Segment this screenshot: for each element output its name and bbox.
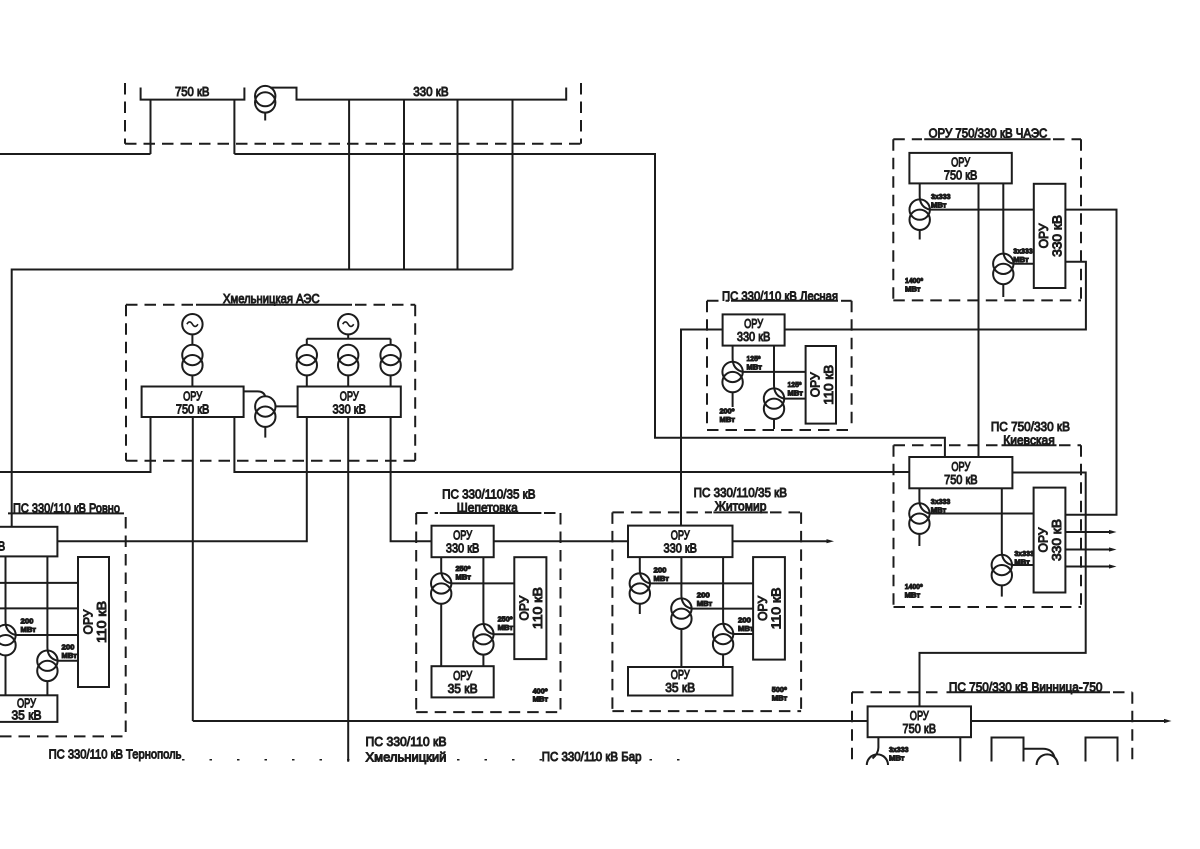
wire 750 kV link toward Kievskaya top feed [234, 154, 945, 457]
busbar 750 kV [141, 88, 245, 100]
svg-text:330 кВ: 330 кВ [413, 84, 448, 99]
transformer 3x333 (Vinnitsa, cut) [873, 737, 879, 758]
svg-text:110 кВ: 110 кВ [530, 587, 545, 629]
arrow 330 kV out 3 (Kievskaya) [1065, 566, 1109, 568]
wire ChAES ORU750 to Kievskaya [978, 183, 980, 457]
svg-text:МВт: МВт [697, 599, 713, 608]
arrow 750 kV line east out of Vinnitsa [971, 720, 1165, 722]
ORU 330 kV box (ChAES) [1034, 184, 1066, 288]
svg-text:330 кВ: 330 кВ [0, 539, 5, 554]
ORU 35 kV box (Zhitomir) [628, 667, 733, 696]
svg-text:МВт: МВт [21, 625, 37, 634]
transformer T2 (Zhitomir) [681, 557, 691, 609]
transformer T3 (Zhitomir) [723, 557, 733, 634]
wire ORU750 output middle (to Vinnitsa 750 line) [192, 417, 194, 721]
ORU 330 kV box (Kievskaya) [1034, 488, 1066, 593]
svg-text:МВт: МВт [905, 591, 921, 600]
svg-text:МВт: МВт [456, 572, 472, 581]
ORU 330 kV box (Khmelnitskaya) [298, 387, 401, 418]
svg-text:750 кВ: 750 кВ [944, 472, 978, 487]
svg-text:МВт: МВт [498, 623, 514, 632]
transformer T2 (Lesnaya) [774, 346, 784, 399]
svg-text:110 кВ: 110 кВ [821, 365, 836, 405]
generator manifold wire [307, 338, 391, 340]
svg-text:330 кВ: 330 кВ [1049, 519, 1064, 561]
wire ChAES 330 to Kievskaya 330 (east) [1065, 210, 1116, 515]
wire 330 kV manifold to Rovno [12, 270, 513, 527]
unit transformer T2c [380, 345, 400, 365]
arrow 330 kV line east (Zhitomir) [733, 540, 828, 542]
svg-text:ПС 330/110/35 кВ: ПС 330/110/35 кВ [442, 486, 535, 501]
unit transformer T2a [297, 345, 317, 365]
arrow 330 kV out 1 (Kievskaya) [1065, 531, 1109, 533]
box A top (Vinnitsa, cut) [992, 738, 1024, 762]
transformer T2 (Shepetovka) [483, 557, 493, 634]
transformer T1 (Shepetovka) [441, 557, 451, 583]
svg-text:МВт: МВт [738, 624, 754, 633]
ORU 35 kV box (Rovno) [0, 695, 57, 722]
transformer T1 (Zhitomir) [640, 557, 650, 583]
wire ORU750 output west [0, 417, 151, 472]
ORU 750 kV box (Khmelnitskaya) [142, 387, 244, 418]
svg-text:МВт: МВт [788, 389, 804, 398]
svg-text:МВт: МВт [931, 201, 947, 210]
svg-text:МВт: МВт [747, 363, 763, 372]
Zhitomir dashed box [611, 512, 613, 711]
ORU 330 kV box (Lesnaya) [723, 314, 785, 345]
transformer between (Vinnitsa, cut) [1024, 749, 1055, 757]
svg-text:ПС 330/110 кВ Тернополь: ПС 330/110 кВ Тернополь [49, 746, 182, 761]
wire ChAES 330 down to Lesnaya [785, 262, 1086, 330]
wire from 750 bus down (west line) [150, 100, 152, 154]
wire 330 bus drop 2 [403, 100, 405, 270]
coupling autotransformer [255, 396, 275, 416]
cut-off dashed box tops (bottom row) [182, 759, 700, 761]
svg-text:330 кВ: 330 кВ [446, 541, 480, 556]
svg-text:МВт: МВт [772, 693, 788, 702]
wire feeder 2 (Vinnitsa, cut) [959, 737, 961, 761]
svg-text:750 кВ: 750 кВ [175, 84, 210, 99]
ORU 750 kV box (Kievskaya) [909, 457, 1012, 488]
svg-text:ПС 330/110 кВ: ПС 330/110 кВ [366, 734, 447, 749]
svg-text:330 кВ: 330 кВ [332, 401, 366, 416]
Shepetovka dashed box [415, 513, 417, 712]
wire ORU330 output down (to Khmelnitskiy) [347, 417, 349, 762]
svg-text:ПС 330/110 кВ Бар: ПС 330/110 кВ Бар [542, 749, 642, 764]
svg-text:МВт: МВт [1013, 255, 1029, 264]
svg-text:МВт: МВт [62, 651, 78, 660]
Lesnaya dashed box [706, 301, 708, 430]
transformer T1 3x333 (Kievskaya) [919, 488, 929, 513]
arrow 330 kV out 2 (Kievskaya) [1065, 549, 1109, 551]
wire 330 bus drop 1 [348, 100, 350, 270]
svg-text:35 кВ: 35 кВ [12, 708, 42, 723]
svg-text:МВт: МВт [889, 754, 905, 763]
busbar 330 kV [270, 88, 566, 100]
wire 750 kV main line west segment [193, 720, 868, 722]
top substation dashed enclosure right edge [580, 83, 582, 144]
wire 330 bus drop 4 [512, 100, 514, 270]
svg-text:110 кВ: 110 кВ [94, 601, 109, 643]
transformer T1 (Lesnaya) [733, 346, 743, 372]
wire Lesnaya west feed down to Zhitomir [681, 330, 723, 526]
svg-text:110 кВ: 110 кВ [769, 587, 784, 629]
svg-text:МВт: МВт [533, 695, 549, 704]
transformer T2 3x333 (Kievskaya) [1002, 488, 1012, 565]
unit transformer T1 [182, 345, 202, 365]
ORU 750 kV box (ChAES) [909, 153, 1011, 184]
wire 330 bus drop 3 [457, 100, 459, 270]
ORU 750 kV box (Vinnitsa) [868, 706, 971, 737]
wire transformer feeder 2 (Rovno) [47, 556, 57, 660]
box B top (Vinnitsa, cut) [1086, 738, 1118, 762]
svg-text:МВт: МВт [931, 506, 947, 515]
transformer T2 3x333 (ChAES) [1003, 183, 1013, 263]
unit transformer T2b [338, 345, 358, 365]
svg-text:750 кВ: 750 кВ [944, 168, 978, 183]
Vinnitsa dashed box [852, 691, 943, 693]
ORU 110 kV box (Shepetovka) [514, 557, 546, 659]
generator G1 [182, 314, 202, 334]
wire Shepetovka to Zhitomir 330 [494, 540, 628, 542]
svg-text:750 кВ: 750 кВ [903, 721, 937, 736]
wire transformer feeder 1 (Rovno) [6, 556, 16, 635]
Rovno dashed box [8, 512, 124, 514]
Kievskaya dashed box [893, 445, 895, 607]
svg-text:35 кВ: 35 кВ [665, 680, 695, 695]
top substation dashed enclosure bottom edge [125, 143, 581, 145]
svg-text:750 кВ: 750 кВ [176, 401, 210, 416]
ORU 110 kV box (Lesnaya) [806, 346, 836, 424]
wire 750 kV line to west (off page) [0, 153, 151, 155]
wire to ORU 110 (off-page feeder a) [0, 582, 78, 584]
Khmelnitskaya AES dashed box [125, 305, 127, 461]
svg-text:35 кВ: 35 кВ [448, 681, 478, 696]
svg-text:МВт: МВт [905, 285, 921, 294]
wire from 750 bus down (east line) [233, 100, 235, 154]
ORU 330 kV box (Rovno, cut at left) [0, 527, 57, 557]
wire ORU750 output east (to Kievskaya) [234, 417, 909, 472]
wire ORU330 output to Shepetovka [391, 417, 432, 541]
wire to ORU 110 (off-page feeder b) [0, 607, 78, 609]
coupling transformer wire from ORU 750 [244, 391, 266, 397]
svg-text:МВт: МВт [654, 574, 670, 583]
generator G2 [338, 314, 358, 334]
svg-text:330 кВ: 330 кВ [664, 540, 698, 555]
svg-text:330 кВ: 330 кВ [737, 329, 771, 344]
top substation dashed enclosure left edge [124, 83, 126, 144]
svg-text:Житомир: Житомир [715, 498, 767, 513]
svg-text:МВт: МВт [720, 415, 736, 424]
ORU 35 kV box (Shepetovka) [432, 666, 494, 697]
wire Kievskaya 750 east then south to Vinnitsa [920, 473, 1086, 707]
ChAES dashed box [892, 139, 894, 300]
ORU 330 kV box (Zhitomir) [628, 526, 733, 558]
ORU 110 kV box (Zhitomir) [753, 557, 785, 660]
transformer T1 3x333 (ChAES) [920, 183, 930, 209]
svg-text:Хмельницкий: Хмельницкий [366, 749, 447, 764]
ORU 330 kV box (Shepetovka) [432, 526, 494, 558]
wire ORU330 output to Rovno [57, 417, 306, 541]
coupling transformer wire to ORU 330 [276, 405, 298, 407]
transformer T0 between 750 and 330 buses [255, 86, 275, 106]
ORU 110 kV box (Rovno) [78, 557, 109, 687]
svg-text:МВт: МВт [1014, 558, 1030, 567]
svg-text:330 кВ: 330 кВ [1049, 215, 1064, 257]
